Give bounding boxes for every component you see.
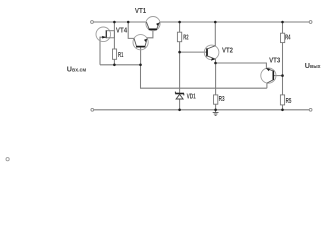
wire R1 bottom lead <box>113 59 115 65</box>
wire top rail right segment <box>160 21 309 23</box>
wire node to VT3 emitter <box>216 63 267 68</box>
wire bias line horizontal <box>141 65 267 88</box>
wire R4 top lead <box>282 22 284 33</box>
transistor VT4 <box>96 27 114 42</box>
wire VT4 gate L <box>100 37 106 65</box>
wire VT1a base L <box>147 30 153 38</box>
resistor R4 <box>281 33 285 42</box>
zener diode VD1 <box>175 92 184 99</box>
transistor VT2 <box>204 45 219 61</box>
svg-text:R4: R4 <box>285 35 291 42</box>
wire VT4/R1 column upper <box>113 22 115 49</box>
transistor VT1 (composite, lower) <box>133 35 148 50</box>
svg-text:VT1: VT1 <box>135 8 146 15</box>
terminal output bottom right <box>309 108 312 111</box>
svg-text:R3: R3 <box>219 96 225 103</box>
svg-text:VT2: VT2 <box>222 48 233 55</box>
wire R3 column <box>215 63 217 95</box>
wire VT1b base lead <box>140 47 142 65</box>
resistor R3 <box>214 95 218 104</box>
svg-text:Uвх.см: Uвх.см <box>67 65 87 74</box>
wire VT3 collector drop <box>266 83 268 88</box>
wire node row y65 <box>100 64 141 66</box>
page artifact mark <box>6 158 9 161</box>
wire VT2 emitter to node <box>215 59 217 63</box>
junction dots <box>113 21 284 111</box>
transistor VT3 <box>261 68 276 83</box>
wire VT2 base <box>180 51 207 53</box>
resistor R1 <box>113 49 117 59</box>
wire R3 bottom lead <box>215 104 217 110</box>
wire top rail left segment <box>93 21 146 23</box>
terminal input top <box>91 21 94 24</box>
wire R5 bottom lead <box>282 105 284 110</box>
wire R2 bottom to VD1 <box>179 42 181 93</box>
svg-text:R2: R2 <box>183 34 188 41</box>
transistor VT1 (composite, upper) <box>146 17 160 31</box>
terminal output top right <box>309 21 312 24</box>
svg-text:VT4: VT4 <box>116 28 127 35</box>
ground <box>213 110 219 116</box>
wire VD1 bottom lead <box>179 99 181 110</box>
wire R4 bottom lead <box>282 43 284 95</box>
wire R2 top lead <box>179 22 181 32</box>
svg-text:VT3: VT3 <box>269 58 280 65</box>
resistor R5 <box>280 95 284 105</box>
resistor R2 <box>177 32 181 42</box>
wire bottom rail <box>94 109 310 111</box>
wire VT1b collector riser <box>128 22 134 38</box>
svg-text:R5: R5 <box>286 98 292 105</box>
wire VT3 base to divider <box>273 75 282 77</box>
terminal input bottom <box>91 108 94 111</box>
svg-text:R1: R1 <box>118 52 124 59</box>
svg-text:VD1: VD1 <box>187 94 196 101</box>
wire VT2 collector riser <box>214 22 216 46</box>
svg-text:Uвых: Uвых <box>305 61 321 70</box>
